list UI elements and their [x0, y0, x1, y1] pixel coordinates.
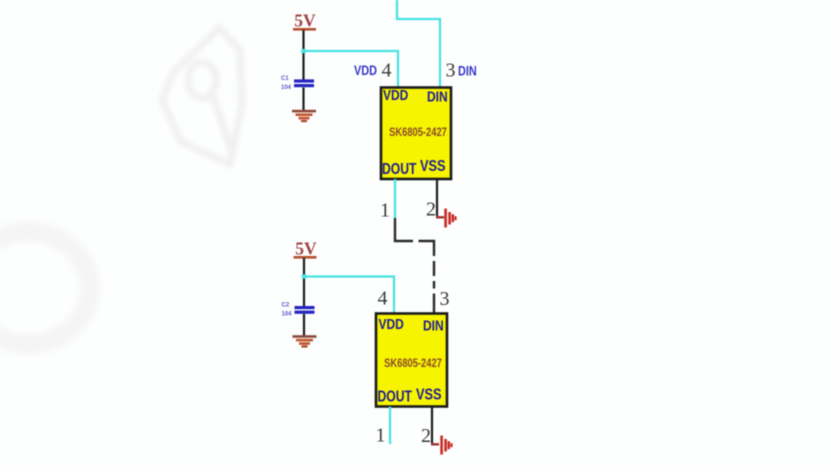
node junction (5V / VDD net) — [301, 49, 305, 53]
svg-text:4: 4 — [378, 288, 388, 310]
svg-text:SK6805-2427: SK6805-2427 — [384, 357, 442, 370]
pin number 3 of U2 — [440, 288, 450, 310]
ground (earth) below C1 — [292, 110, 316, 122]
capacitor C1 value 104 — [281, 76, 314, 91]
watermark letter P — [162, 28, 242, 164]
svg-text:VSS: VSS — [420, 158, 446, 176]
svg-text:1: 1 — [380, 200, 390, 222]
pin number 4 of U2 — [378, 288, 388, 310]
svg-text:2: 2 — [421, 425, 431, 447]
wire from C1 to ground — [302, 88, 304, 111]
wire from 5V bar to capacitor C2 — [303, 258, 305, 307]
pin number 2 of U1 — [426, 199, 436, 221]
svg-text:C2: C2 — [282, 303, 290, 309]
pin number 4 of U1 — [382, 60, 392, 82]
wire cyan VDD net to pin 4 of U1 — [304, 51, 398, 88]
wire black from VSS pin 2 of U2 — [431, 407, 439, 445]
wire dashed from DOUT of U1 to DIN of U2 — [395, 218, 434, 313]
net label VDD (pin 4 of U1) — [354, 63, 377, 79]
svg-text:3: 3 — [446, 60, 456, 82]
ground (earth) below C2 — [293, 335, 317, 347]
watermark letter O — [0, 232, 90, 344]
svg-text:1: 1 — [376, 425, 386, 447]
svg-text:104: 104 — [282, 312, 293, 318]
power 5V symbol (bottom) — [294, 239, 318, 259]
svg-text:2: 2 — [426, 199, 436, 221]
svg-text:104: 104 — [281, 85, 292, 91]
svg-text:DIN: DIN — [458, 63, 477, 79]
svg-text:3: 3 — [440, 288, 450, 310]
capacitor C2 value 104 — [282, 303, 315, 318]
wire black from VSS pin 2 of U1 — [436, 179, 444, 217]
svg-text:5V: 5V — [295, 239, 317, 259]
node junction (5V / pin 4 net of U2) — [302, 274, 306, 278]
net label DIN (pin 3 of U1) — [458, 63, 477, 79]
svg-text:5V: 5V — [294, 11, 316, 31]
svg-text:VDD: VDD — [383, 87, 408, 104]
pin number 2 of U2 — [421, 425, 431, 447]
wire cyan from DOUT pin 1 of U1 — [394, 179, 396, 218]
ground (signal) at pin 2 of U1 — [444, 209, 456, 228]
wire cyan from DOUT pin 1 of U2 — [389, 407, 391, 445]
svg-text:VDD: VDD — [379, 316, 404, 333]
svg-text:DIN: DIN — [423, 317, 444, 334]
power 5V symbol (top) — [293, 11, 316, 31]
svg-text:DOUT: DOUT — [382, 160, 417, 178]
wire from 5V bar to capacitor C1 — [302, 30, 304, 80]
wire from C2 to ground — [303, 314, 305, 336]
wire cyan from top edge to DIN of U1 — [397, 0, 440, 88]
wire cyan to pin 4 of U2 — [305, 277, 394, 314]
IC U2 SK6805-2427 body — [376, 314, 447, 407]
svg-text:DIN: DIN — [427, 88, 448, 105]
svg-text:SK6805-2427: SK6805-2427 — [389, 126, 447, 139]
pin number 3 of U1 — [446, 60, 456, 82]
pin number 1 of U1 — [380, 200, 390, 222]
pin number 1 of U2 — [376, 425, 386, 447]
svg-text:VSS: VSS — [416, 386, 442, 404]
svg-text:VDD: VDD — [354, 63, 377, 79]
svg-text:4: 4 — [382, 60, 392, 82]
ground (signal) at pin 2 of U2 — [440, 436, 452, 455]
svg-text:DOUT: DOUT — [378, 388, 413, 406]
IC U1 SK6805-2427 body — [381, 87, 451, 179]
svg-text:C1: C1 — [281, 76, 289, 82]
